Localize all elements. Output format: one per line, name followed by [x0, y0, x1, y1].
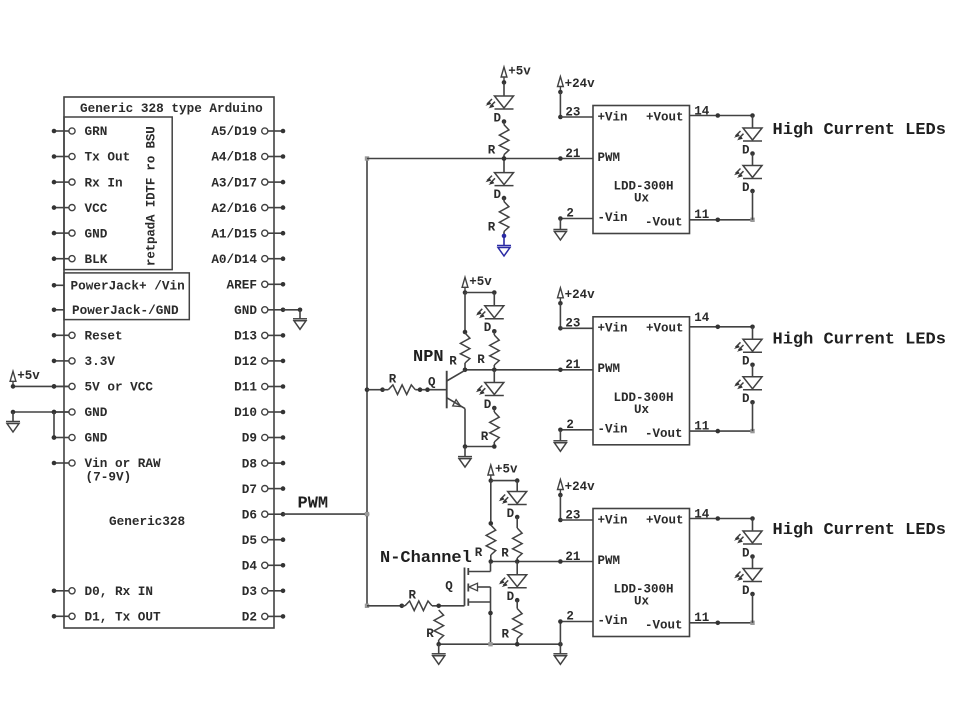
- wire +Vout: [690, 326, 753, 328]
- svg-text:U: U: [145, 126, 159, 134]
- stub to ground: [559, 644, 561, 654]
- svg-text:D: D: [493, 188, 501, 202]
- wire D to R: [493, 331, 495, 335]
- emitter arrow: [453, 400, 461, 407]
- svg-text:Tx Out: Tx Out: [85, 150, 131, 165]
- svg-text:Generic328: Generic328: [109, 514, 185, 529]
- svg-text:-Vin: -Vin: [598, 614, 628, 628]
- stub to ground: [438, 644, 440, 654]
- svg-text:21: 21: [565, 147, 580, 161]
- svg-text:D: D: [507, 507, 515, 521]
- svg-text:+Vout: +Vout: [646, 513, 684, 527]
- svg-text:D3: D3: [242, 584, 257, 599]
- ground (NPN emitter): [458, 457, 472, 468]
- pin VCC (left): [54, 207, 69, 209]
- wire LED to -Vout: [752, 191, 754, 220]
- transistor Q (N-channel MOSFET): [464, 568, 466, 606]
- wire to +Vin: [560, 327, 593, 329]
- drain wire up: [490, 562, 492, 572]
- pin D9 (right): [262, 434, 268, 440]
- resistor R (NPN lower chain): [490, 412, 500, 442]
- svg-text:a: a: [145, 229, 159, 237]
- junction PWM wire: [558, 156, 563, 161]
- svg-text:A1/D15: A1/D15: [211, 226, 257, 241]
- svg-text:D2: D2: [242, 610, 257, 625]
- svg-text:o: o: [145, 156, 159, 164]
- svg-text:Q: Q: [428, 375, 436, 389]
- stub to ground: [559, 219, 561, 230]
- wire -Vout: [690, 219, 753, 221]
- svg-text:D9: D9: [242, 431, 257, 446]
- svg-text:Ux: Ux: [634, 595, 650, 609]
- LED D (chain 2 lower): [736, 377, 763, 390]
- corner rail bottom: [365, 604, 369, 608]
- svg-text:R: R: [449, 354, 457, 368]
- pin Tx Out (left): [54, 156, 69, 158]
- LED D (N-Ch upper): [500, 492, 527, 505]
- wire to ground symbol: [12, 412, 14, 422]
- op-amp U3 LDD-300H box: [593, 509, 690, 637]
- wire PWM line section 2: [465, 369, 593, 371]
- svg-text:N-Channel: N-Channel: [380, 549, 472, 568]
- svg-text:D6: D6: [242, 507, 257, 522]
- wire -Vout: [690, 430, 753, 432]
- stub to ground: [559, 430, 561, 441]
- resistor R (NPN upper chain): [490, 335, 500, 365]
- wire node to D: [503, 159, 505, 173]
- LED D (N-Ch lower): [500, 575, 527, 588]
- junction gate node: [436, 604, 441, 609]
- junction rail/NPN base: [365, 387, 370, 392]
- wire D6 to PWM rail: [283, 513, 367, 515]
- wire GND pin to ground: [283, 309, 300, 311]
- wire to LED chain: [752, 519, 754, 532]
- corner junction: [750, 113, 755, 118]
- svg-text:Ux: Ux: [634, 192, 650, 206]
- pin D12 (right): [262, 358, 268, 364]
- wire +24v to +Vin: [559, 92, 561, 117]
- LED D (chain 3 upper): [736, 531, 763, 544]
- LED D (chain 3 lower): [736, 569, 763, 582]
- pin Reset (left): [54, 334, 69, 336]
- svg-text:21: 21: [565, 358, 580, 372]
- pin A0/D14 (right): [262, 256, 268, 262]
- junction PWM wire: [558, 368, 563, 373]
- svg-text:+Vout: +Vout: [646, 110, 684, 124]
- svg-text:+Vin: +Vin: [598, 513, 628, 527]
- svg-text:+24v: +24v: [565, 77, 596, 91]
- svg-text:T: T: [145, 185, 159, 193]
- svg-text:3.3V: 3.3V: [85, 354, 116, 369]
- wire PWM line section 3: [491, 561, 593, 563]
- wire between LEDs: [752, 557, 754, 569]
- svg-text:PowerJack-/GND: PowerJack-/GND: [72, 303, 179, 318]
- wire PWM line section 1: [367, 158, 593, 160]
- ground rail section 3: [439, 643, 561, 645]
- svg-text:e: e: [145, 251, 159, 259]
- LED D (sec1 lower): [487, 173, 514, 186]
- svg-text:D11: D11: [234, 380, 257, 395]
- svg-text:(7-9V): (7-9V): [86, 470, 132, 485]
- svg-text:Rx In: Rx In: [85, 175, 123, 190]
- pin D4 (right): [262, 562, 268, 568]
- LED D (NPN upper): [477, 306, 504, 319]
- svg-text:GND: GND: [234, 303, 257, 318]
- wire R to gate: [432, 605, 465, 607]
- wire to ground: [464, 447, 466, 457]
- resistor R (N-Ch lower chain): [513, 609, 523, 639]
- power +24v (driver 2): [558, 288, 564, 304]
- svg-text:R: R: [501, 547, 509, 561]
- svg-text:+Vin: +Vin: [598, 110, 628, 124]
- wire LED to -Vout: [752, 594, 754, 623]
- wire line to D: [516, 562, 518, 575]
- svg-text:D: D: [742, 392, 750, 406]
- power +24v (driver 3): [558, 480, 564, 496]
- svg-text:r: r: [145, 163, 159, 171]
- power +24v (driver 1): [558, 77, 564, 93]
- svg-text:-Vout: -Vout: [645, 619, 683, 633]
- power +5v (NPN): [462, 277, 468, 293]
- svg-text:D: D: [742, 355, 750, 369]
- pin GND (right): [262, 307, 268, 313]
- svg-text:S: S: [145, 133, 159, 141]
- emitter wire down: [464, 409, 466, 447]
- wire LED to -Vout: [752, 402, 754, 431]
- pin A2/D16 (right): [262, 205, 268, 211]
- svg-text:GND: GND: [85, 405, 108, 420]
- wire -Vin to ground rail: [559, 622, 561, 645]
- op-amp U2 LDD-300H box: [593, 317, 690, 445]
- svg-text:Ux: Ux: [634, 403, 650, 417]
- svg-text:Generic 328 type Arduino: Generic 328 type Arduino: [80, 101, 263, 116]
- USB or FTDI Adapter inner box: [64, 117, 172, 270]
- body bar: [478, 586, 491, 588]
- wire R to drain node: [490, 555, 492, 562]
- wire to -Vin: [560, 429, 593, 431]
- svg-text:Reset: Reset: [85, 329, 123, 344]
- wire +5v to D: [503, 82, 505, 96]
- pin D0, Rx IN (left): [54, 590, 69, 592]
- channel seg top: [467, 568, 469, 575]
- transistor Q (NPN): [446, 371, 448, 409]
- pin D11 (right): [262, 383, 268, 389]
- wire D to R: [503, 122, 505, 125]
- junction below +5v: [502, 80, 507, 85]
- pin D6 (right): [262, 511, 268, 517]
- svg-text:+5v: +5v: [508, 65, 531, 79]
- svg-text:PWM: PWM: [598, 554, 621, 568]
- wire +5v to 5V or VCC pin: [13, 385, 69, 387]
- wire D to R: [493, 408, 495, 413]
- svg-text:D: D: [507, 590, 515, 604]
- pin GND (left): [54, 411, 69, 413]
- wire to D: [493, 293, 495, 306]
- pin A1/D15 (right): [262, 230, 268, 236]
- svg-text:R: R: [389, 373, 397, 387]
- svg-text:D7: D7: [242, 482, 257, 497]
- ground (-Vin driver 2): [553, 441, 567, 452]
- wire to -Vin: [560, 621, 593, 623]
- wire R to PWM line: [503, 155, 505, 159]
- pin BLK (left): [54, 258, 69, 260]
- svg-text:PWM: PWM: [598, 151, 621, 165]
- svg-text:D12: D12: [234, 354, 257, 369]
- svg-text:AREF: AREF: [227, 278, 257, 293]
- pin Rx In (left): [54, 181, 69, 183]
- svg-text:A3/D17: A3/D17: [211, 175, 257, 190]
- svg-text:+24v: +24v: [565, 288, 596, 302]
- svg-text:D: D: [484, 398, 492, 412]
- ground (blue, sec1): [497, 246, 511, 257]
- pin GRN (left): [54, 130, 69, 132]
- resistor R (sec1 lower): [499, 202, 509, 232]
- junction sec1 node: [502, 156, 507, 161]
- svg-text:A5/D19: A5/D19: [211, 124, 257, 139]
- svg-text:GRN: GRN: [85, 124, 108, 139]
- wire to +Vin: [560, 519, 593, 521]
- svg-text:+5v: +5v: [17, 369, 40, 383]
- wire line to D: [493, 370, 495, 383]
- op-amp U1 LDD-300H box: [593, 106, 690, 234]
- svg-text:PWM: PWM: [298, 495, 329, 514]
- resistor R gate pull-down: [434, 610, 444, 640]
- svg-text:-Vout: -Vout: [645, 216, 683, 230]
- collector lead: [447, 370, 465, 381]
- wire to LED chain: [752, 116, 754, 129]
- wire -Vout: [690, 622, 753, 624]
- wire +5v split: [465, 292, 494, 294]
- PWM vertical rail: [366, 159, 368, 606]
- pin A3/D17 (right): [262, 179, 268, 185]
- svg-text:PowerJack+ /Vin: PowerJack+ /Vin: [71, 279, 185, 294]
- svg-text:D: D: [145, 192, 159, 200]
- ground (N-Ch left): [432, 654, 446, 665]
- junction collector: [463, 368, 468, 373]
- svg-text:I: I: [145, 200, 159, 208]
- source bar: [468, 601, 490, 603]
- power +5v (section 1): [501, 67, 507, 83]
- svg-text:D: D: [742, 546, 750, 560]
- ground (left): [6, 422, 20, 433]
- junction +5v node: [463, 290, 468, 295]
- svg-text:D: D: [742, 584, 750, 598]
- channel seg bottom: [467, 599, 469, 606]
- svg-text:High Current LEDs: High Current LEDs: [773, 331, 946, 350]
- pin D13 (right): [262, 332, 268, 338]
- svg-text:PWM: PWM: [598, 362, 621, 376]
- svg-text:A2/D16: A2/D16: [211, 201, 257, 216]
- wire between LEDs: [752, 365, 754, 377]
- pin GND (left): [54, 232, 69, 234]
- junction PWM wire: [558, 559, 563, 564]
- resistor R (sec1 upper): [499, 125, 509, 155]
- corner junction: [750, 325, 755, 330]
- wire R to PWM line: [516, 558, 518, 562]
- wire to LED chain: [752, 327, 754, 340]
- corner: [750, 429, 754, 433]
- svg-text:D13: D13: [234, 329, 257, 344]
- svg-text:R: R: [502, 628, 510, 642]
- wire R to ground rail: [516, 639, 518, 645]
- wire R to collector node: [464, 363, 466, 370]
- drain bar: [468, 571, 490, 573]
- svg-text:VCC: VCC: [85, 201, 108, 216]
- LED D (chain 2 upper): [736, 339, 763, 352]
- svg-text:D1, Tx OUT: D1, Tx OUT: [85, 610, 162, 625]
- svg-text:GND: GND: [85, 226, 108, 241]
- channel seg mid: [467, 584, 469, 592]
- junction +5v node: [489, 478, 494, 483]
- svg-text:+Vout: +Vout: [646, 322, 684, 336]
- svg-text:D8: D8: [242, 456, 257, 471]
- svg-text:14: 14: [694, 311, 710, 325]
- wire +Vout: [690, 518, 753, 520]
- ground (right of GND pin): [293, 319, 307, 330]
- pin PowerJack+ /Vin: [54, 284, 64, 286]
- junction chain: [492, 368, 497, 373]
- svg-text:A0/D14: A0/D14: [211, 252, 257, 267]
- junction chain: [515, 559, 520, 564]
- LED D (sec1 upper): [487, 96, 514, 109]
- source wire down: [490, 587, 492, 644]
- svg-text:-Vin: -Vin: [598, 423, 628, 437]
- svg-text:R: R: [477, 353, 485, 367]
- wire to pull-up R: [464, 293, 466, 333]
- Arduino Generic328 module U-main outer box: [64, 97, 274, 628]
- svg-text:D: D: [493, 111, 501, 125]
- corner rail top: [365, 156, 369, 160]
- wire +Vout: [690, 115, 753, 117]
- wire D to R: [516, 600, 518, 608]
- blue wire to ground: [503, 236, 505, 246]
- emitter/ground rail: [465, 446, 494, 448]
- svg-text:High Current LEDs: High Current LEDs: [773, 121, 946, 140]
- wire R to ground: [503, 232, 505, 236]
- pin PowerJack-/GND: [54, 309, 64, 311]
- LED D (chain 1 upper): [736, 128, 763, 141]
- svg-text:+24v: +24v: [565, 480, 596, 494]
- corner: [750, 621, 754, 625]
- svg-text:D5: D5: [242, 533, 257, 548]
- pin D5 (right): [262, 537, 268, 543]
- svg-text:NPN: NPN: [413, 348, 444, 367]
- svg-text:p: p: [145, 236, 159, 244]
- svg-text:D10: D10: [234, 405, 257, 420]
- wire to -Vin: [560, 218, 593, 220]
- svg-text:R: R: [481, 430, 489, 444]
- svg-text:+Vin: +Vin: [598, 322, 628, 336]
- svg-text:D: D: [484, 321, 492, 335]
- svg-text:Q: Q: [445, 580, 453, 594]
- NPN base resistor R: [367, 389, 383, 391]
- pin D10 (right): [262, 409, 268, 415]
- svg-text:D4: D4: [242, 559, 258, 574]
- svg-text:t: t: [145, 244, 159, 252]
- wire R to PWM line: [493, 365, 495, 370]
- wire to +Vin: [560, 116, 593, 118]
- emitter lead: [447, 398, 465, 409]
- ground (-Vin driver 1): [553, 230, 567, 241]
- pin D1, Tx OUT (left): [54, 615, 69, 617]
- LED D (chain 1 lower): [736, 166, 763, 179]
- svg-text:GND: GND: [85, 431, 108, 446]
- pin D3 (right): [262, 588, 268, 594]
- wire R to base: [415, 389, 446, 391]
- pin 5V or VCC (left): [54, 385, 69, 387]
- PowerJack inner box: [64, 273, 189, 320]
- power +5v (N-Channel): [488, 465, 494, 481]
- svg-text:+5v: +5v: [469, 275, 492, 289]
- svg-text:A4/D18: A4/D18: [211, 150, 257, 165]
- wire D to R: [503, 198, 505, 202]
- wire R to emitter rail: [493, 442, 495, 447]
- svg-text:R: R: [488, 144, 496, 158]
- svg-text:F: F: [145, 178, 159, 186]
- wire +5v split: [491, 480, 517, 482]
- svg-text:R: R: [426, 627, 434, 641]
- wire ground rail to GND pins: [13, 411, 69, 413]
- pin A5/D19 (right): [262, 128, 268, 134]
- pin 3.3V (left): [54, 360, 69, 362]
- wire to pull-up R: [490, 481, 492, 524]
- pin A4/D18 (right): [262, 153, 268, 159]
- svg-text:5V or VCC: 5V or VCC: [85, 380, 154, 395]
- svg-text:B: B: [145, 140, 159, 148]
- svg-text:+5v: +5v: [495, 463, 518, 477]
- pin D2 (right): [262, 613, 268, 619]
- resistor R (NPN collector pull-up): [460, 333, 470, 363]
- resistor R (drain pull-up): [486, 525, 496, 555]
- pin AREF (right): [262, 281, 268, 287]
- svg-text:-Vin: -Vin: [598, 211, 628, 225]
- pin D8 (right): [262, 460, 268, 466]
- svg-text:r: r: [145, 259, 159, 267]
- LED D (NPN lower): [477, 383, 504, 396]
- svg-text:D0, Rx IN: D0, Rx IN: [85, 584, 154, 599]
- svg-text:BLK: BLK: [85, 252, 108, 267]
- ground (N-Ch right): [553, 654, 567, 665]
- svg-text:d: d: [145, 222, 159, 230]
- wire +24v to +Vin: [559, 303, 561, 328]
- resistor R (N-Ch upper chain): [513, 528, 523, 558]
- wire +24v to +Vin: [559, 495, 561, 520]
- wire between LEDs: [752, 154, 754, 166]
- svg-text:R: R: [409, 589, 417, 603]
- blue junction: [502, 234, 507, 239]
- junction D6/rail: [365, 512, 370, 517]
- pin Vin or RAW (left): [54, 462, 69, 464]
- svg-text:R: R: [488, 221, 496, 235]
- wire to D: [516, 481, 518, 492]
- junction drain: [489, 559, 494, 564]
- pin GND (left): [54, 437, 69, 439]
- N-Channel gate resistor R: [367, 605, 402, 607]
- wire R to rail: [438, 640, 440, 644]
- corner junction: [750, 516, 755, 521]
- svg-text:A: A: [145, 214, 159, 222]
- pin D7 (right): [262, 486, 268, 492]
- wire between GND pins: [53, 412, 55, 438]
- body arrow: [469, 583, 478, 591]
- svg-text:21: 21: [565, 550, 580, 564]
- svg-text:R: R: [475, 546, 483, 560]
- svg-text:-Vout: -Vout: [645, 427, 683, 441]
- svg-text:D: D: [742, 181, 750, 195]
- power +5v (left): [10, 371, 16, 387]
- svg-text:D: D: [742, 143, 750, 157]
- corner: [750, 218, 754, 222]
